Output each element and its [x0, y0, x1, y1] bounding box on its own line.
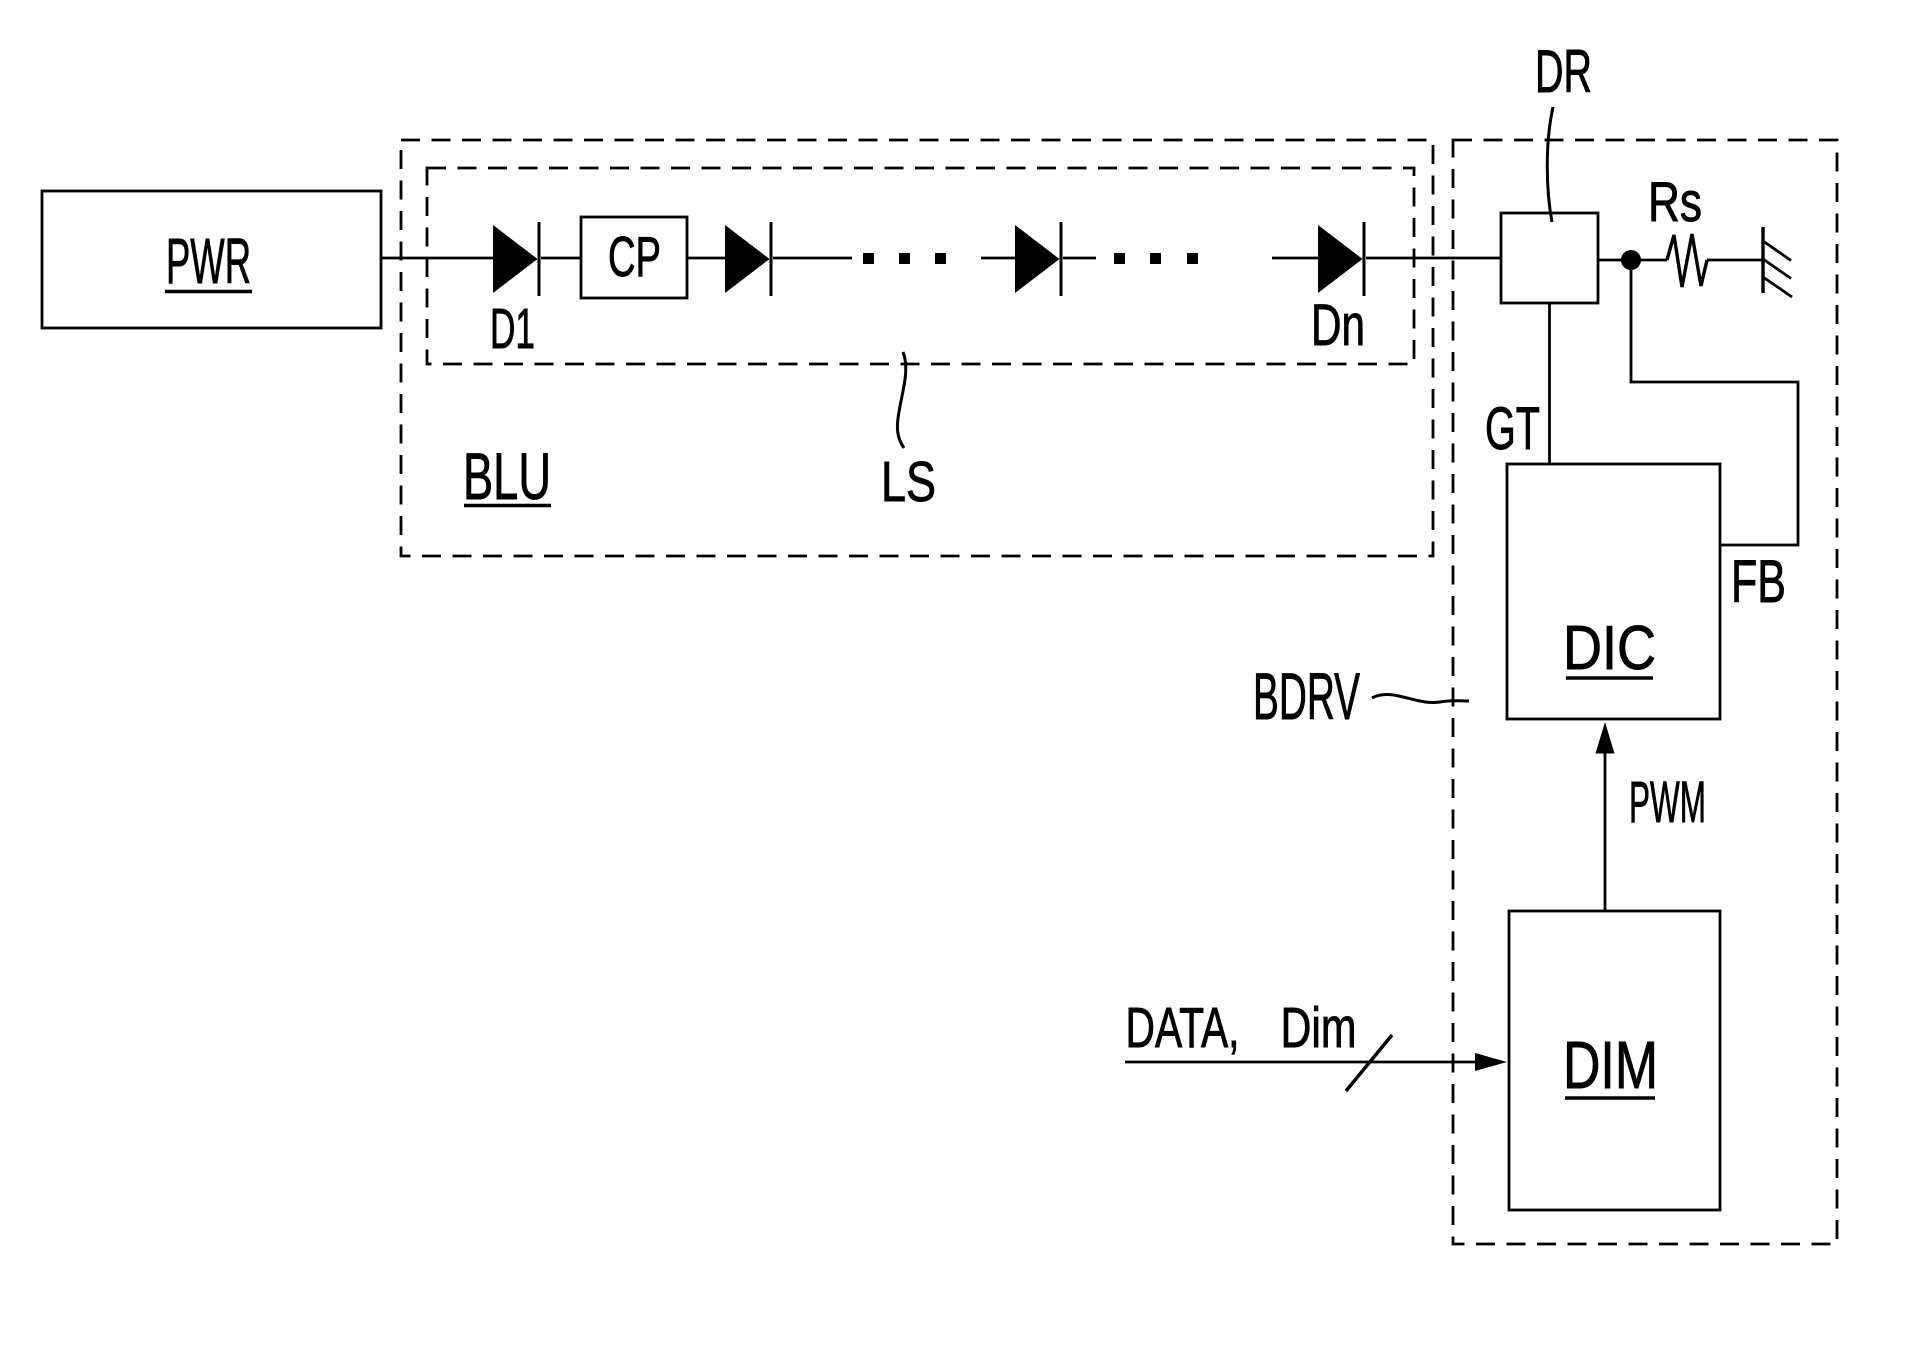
block DR (drive transistor) — [1501, 213, 1598, 303]
block CP (connection point) — [581, 217, 687, 298]
resistor Rs — [1667, 234, 1707, 287]
leader line DR — [1547, 107, 1553, 222]
svg-text:CP: CP — [608, 225, 661, 289]
LED D3 — [1015, 225, 1060, 293]
node junction dot — [1621, 250, 1641, 270]
arrow DATA,Dim into DIM — [1125, 1061, 1479, 1064]
dashed box BLU (backlight unit) — [401, 140, 1433, 556]
svg-text:Dim: Dim — [1281, 996, 1357, 1060]
svg-text:DIC: DIC — [1563, 614, 1656, 683]
wire Rs to ground — [1707, 259, 1763, 262]
svg-text:BDRV: BDRV — [1253, 659, 1360, 733]
svg-text:DR: DR — [1535, 38, 1592, 105]
svg-text:BLU: BLU — [463, 439, 551, 513]
wire after LED D2 — [773, 257, 852, 260]
dashed box BDRV (backlight driver) — [1453, 140, 1837, 1244]
dashed box LS (LED string) — [427, 168, 1414, 364]
svg-text:LS: LS — [881, 450, 936, 514]
svg-text:DIM: DIM — [1563, 1028, 1658, 1103]
svg-text:FB: FB — [1731, 548, 1786, 615]
svg-text:PWR: PWR — [166, 225, 251, 297]
svg-text:DATA,: DATA, — [1126, 996, 1240, 1060]
ellipsis dots 1 — [863, 253, 874, 264]
svg-text:GT: GT — [1485, 395, 1540, 462]
arrow PWM (DIM to DIC) — [1604, 752, 1607, 911]
leader line BDRV — [1372, 695, 1469, 703]
block DIC (driver IC) — [1507, 464, 1720, 719]
svg-text:PWM: PWM — [1629, 770, 1706, 835]
wire FB (node to DIC) — [1631, 260, 1798, 545]
LED D1 — [493, 225, 538, 293]
block DIM (dimming controller) — [1509, 911, 1720, 1210]
wire into LED Dn — [1272, 257, 1318, 260]
wire after LED D3 — [1063, 257, 1096, 260]
leader line LS — [897, 352, 905, 448]
svg-text:D1: D1 — [490, 297, 535, 361]
bus slash on DATA,Dim arrow — [1346, 1035, 1392, 1091]
wire DR to node — [1598, 259, 1667, 262]
block PWR (power supply) — [42, 191, 381, 328]
wire into LED D3 — [981, 257, 1015, 260]
svg-text:Rs: Rs — [1648, 170, 1702, 233]
wire CP to LED D2 — [687, 257, 725, 260]
wire GT (DR to DIC) — [1548, 303, 1551, 464]
wire PWR to D1 — [381, 257, 493, 260]
wire D1 to CP — [541, 257, 581, 260]
wire Dn to DR — [1366, 257, 1501, 260]
svg-text:Dn: Dn — [1311, 293, 1365, 358]
LED Dn — [1318, 225, 1363, 293]
LED D2 — [725, 225, 770, 293]
ellipsis dots 2 — [1114, 253, 1125, 264]
ground symbol — [1761, 227, 1764, 293]
